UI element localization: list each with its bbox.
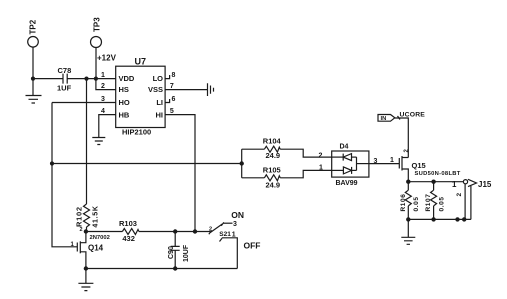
U7 pin 4 stub (HB) bbox=[99, 108, 116, 137]
svg-text:OFF: OFF bbox=[244, 241, 261, 251]
svg-text:3: 3 bbox=[233, 221, 237, 228]
U7 pin 8 stub bbox=[165, 72, 175, 79]
svg-text:+12V: +12V bbox=[97, 53, 117, 62]
svg-text:432: 432 bbox=[122, 234, 135, 243]
ground (sense rail) bbox=[401, 219, 415, 244]
svg-text:0.05: 0.05 bbox=[439, 196, 446, 211]
junction (C90 top) bbox=[173, 229, 177, 233]
svg-text:3: 3 bbox=[101, 96, 105, 103]
svg-text:Q15: Q15 bbox=[412, 161, 426, 170]
resistor R104 bbox=[242, 136, 332, 160]
svg-text:Q14: Q14 bbox=[88, 243, 104, 252]
svg-text:U7: U7 bbox=[135, 57, 147, 67]
svg-text:1UF: 1UF bbox=[57, 84, 72, 93]
test point TP2 bbox=[28, 19, 39, 95]
wire: HO down to Q14 gate bbox=[52, 103, 77, 247]
wire: gate drive row bbox=[52, 163, 242, 165]
svg-text:HIP2100: HIP2100 bbox=[122, 127, 151, 136]
ground (Q14 source) bbox=[78, 269, 93, 291]
svg-text:2: 2 bbox=[101, 83, 105, 90]
svg-text:LI: LI bbox=[156, 98, 163, 107]
ground (below TP2) bbox=[26, 96, 42, 104]
junction (gate row split) bbox=[240, 161, 244, 165]
U7 pin 2 (jog up to rail) bbox=[96, 79, 116, 91]
svg-text:TP3: TP3 bbox=[93, 17, 102, 32]
capacitor C78 bbox=[57, 66, 72, 93]
svg-text:2: 2 bbox=[80, 227, 83, 233]
junction (R106 bottom) bbox=[406, 217, 410, 221]
svg-text:BAV99: BAV99 bbox=[336, 180, 358, 187]
svg-text:TP2: TP2 bbox=[29, 19, 38, 34]
svg-text:3: 3 bbox=[374, 158, 378, 165]
switch S21 bbox=[209, 210, 261, 269]
resistor R103 bbox=[86, 219, 210, 243]
svg-text:HO: HO bbox=[119, 98, 130, 107]
svg-text:SUD50N-08LBT: SUD50N-08LBT bbox=[415, 171, 461, 177]
svg-text:R102: R102 bbox=[75, 206, 84, 227]
junction (HO branch to gate row) bbox=[50, 161, 54, 165]
svg-text:10UF: 10UF bbox=[183, 244, 190, 262]
svg-text:S21: S21 bbox=[219, 231, 231, 238]
wire: UCORE to Q15 drain bbox=[395, 118, 409, 158]
resistor R105 bbox=[242, 166, 332, 190]
svg-text:HB: HB bbox=[119, 110, 130, 119]
svg-text:1: 1 bbox=[319, 164, 323, 171]
svg-text:7: 7 bbox=[170, 83, 174, 90]
svg-text:1: 1 bbox=[232, 232, 236, 239]
svg-text:2N7002: 2N7002 bbox=[90, 235, 110, 241]
junction (HI wire / switch node) bbox=[193, 229, 197, 233]
svg-text:VDD: VDD bbox=[119, 74, 135, 83]
junction (R102 branch) bbox=[84, 77, 88, 81]
test point TP3 bbox=[91, 17, 102, 79]
svg-text:IN: IN bbox=[381, 116, 387, 122]
wire: +12V rail bbox=[33, 78, 116, 80]
diode pack D4 BAV99 bbox=[319, 144, 369, 188]
ground (VSS, sideways) bbox=[208, 83, 214, 96]
junction (C90 bottom) bbox=[173, 266, 177, 270]
svg-text:J15: J15 bbox=[478, 180, 492, 189]
U7 pin 6 stub bbox=[165, 96, 175, 103]
svg-text:1: 1 bbox=[390, 157, 394, 164]
junction (J15 pin2 wire b) bbox=[462, 217, 466, 221]
svg-text:24.9: 24.9 bbox=[266, 151, 281, 160]
svg-text:8: 8 bbox=[172, 72, 176, 79]
junction (TP2 / rail) bbox=[31, 77, 35, 81]
svg-text:1: 1 bbox=[452, 180, 457, 189]
net label UCORE bbox=[398, 112, 426, 120]
svg-text:R103: R103 bbox=[119, 219, 137, 228]
wire: D4 out to Q15 gate bbox=[369, 158, 399, 165]
svg-text:41.5K: 41.5K bbox=[93, 205, 100, 227]
transistor Q14 2N7002 bbox=[71, 227, 110, 269]
svg-text:C78: C78 bbox=[58, 66, 72, 75]
junction (Q15 source node) bbox=[406, 180, 410, 184]
junction (R107 top) bbox=[431, 180, 435, 184]
transistor Q15 bbox=[390, 149, 461, 182]
flag IN bbox=[378, 115, 395, 123]
svg-text:VSS: VSS bbox=[148, 85, 163, 94]
svg-text:R106: R106 bbox=[400, 194, 407, 212]
svg-text:6: 6 bbox=[172, 96, 176, 103]
svg-text:4: 4 bbox=[101, 108, 105, 115]
connector J15 bbox=[452, 179, 492, 219]
svg-text:R105: R105 bbox=[263, 166, 281, 175]
capacitor C90 bbox=[168, 232, 190, 269]
svg-text:2: 2 bbox=[456, 193, 463, 197]
svg-text:2: 2 bbox=[319, 152, 323, 159]
wire: R104/R105 splitter bbox=[241, 149, 243, 178]
svg-text:R107: R107 bbox=[425, 194, 432, 212]
svg-text:ON: ON bbox=[231, 210, 244, 220]
wire: bottom rail bbox=[86, 268, 237, 270]
U7 pin 3 wire (HO) bbox=[52, 96, 116, 103]
svg-text:LO: LO bbox=[153, 74, 164, 83]
svg-text:HS: HS bbox=[119, 85, 129, 94]
svg-text:5: 5 bbox=[170, 108, 174, 115]
svg-text:0.05: 0.05 bbox=[413, 196, 420, 211]
resistor R102 bbox=[75, 204, 100, 232]
wire: source row to J15 bbox=[408, 181, 463, 183]
IC U7 HIP2100 body bbox=[116, 57, 165, 137]
junction (R107 bottom) bbox=[431, 217, 435, 221]
svg-text:C90: C90 bbox=[168, 246, 175, 259]
junction (J15 pin2 wire a) bbox=[455, 217, 459, 221]
resistor R107 bbox=[425, 182, 446, 220]
junction (Q14 source node) bbox=[84, 266, 88, 270]
junction (Q14 drain node) bbox=[84, 229, 88, 233]
svg-text:24.9: 24.9 bbox=[266, 180, 281, 189]
wire: sense bottom rail bbox=[408, 218, 471, 220]
svg-text:R104: R104 bbox=[263, 136, 282, 145]
U7 pin 5 wire (HI, down to switch node) bbox=[165, 108, 195, 231]
junction (TP3 / pin2) bbox=[94, 77, 98, 81]
resistor R106 bbox=[400, 182, 420, 220]
svg-text:D4: D4 bbox=[340, 144, 349, 151]
U7 pin 7 wire (VSS) bbox=[165, 83, 207, 90]
svg-text:1: 1 bbox=[101, 72, 105, 79]
ground (U7 HB) bbox=[92, 138, 105, 145]
wire: +12V down to R102 bbox=[86, 79, 88, 204]
svg-text:2: 2 bbox=[209, 227, 212, 233]
svg-text:HI: HI bbox=[156, 110, 164, 119]
